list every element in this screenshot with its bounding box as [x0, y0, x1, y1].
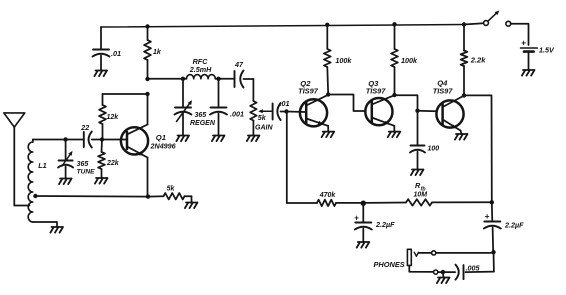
wire switch to battery	[511, 24, 529, 45]
resistor 5k	[148, 186, 192, 203]
transistor Q1 2N4996	[102, 94, 177, 197]
svg-text:365: 365	[77, 161, 89, 168]
wire junction to Q2 base	[287, 111, 306, 114]
node tune junction	[63, 137, 67, 141]
svg-text:2.5mH: 2.5mH	[189, 65, 212, 74]
svg-text:22k: 22k	[106, 160, 120, 167]
wire to RFC	[148, 78, 184, 80]
svg-text:TIS97: TIS97	[366, 86, 387, 95]
svg-text:100k: 100k	[401, 56, 418, 65]
variable capacitor 365 REGEN	[175, 79, 216, 136]
ground after 5k	[185, 203, 198, 209]
wire to .005	[443, 271, 455, 273]
node collector-12k junction	[145, 92, 149, 96]
ground below .001	[212, 136, 225, 142]
node RFC-.001 junction	[216, 77, 220, 81]
resistor 1k	[144, 27, 162, 80]
wire tune junction to 22 cap	[66, 139, 84, 141]
resistor 100k Q3	[391, 24, 418, 95]
wire rail to switch	[464, 23, 484, 24]
resistor 470k	[287, 192, 364, 206]
antenna	[4, 113, 25, 206]
transistor Q2 TIS97	[298, 79, 328, 132]
svg-text:.01: .01	[111, 49, 121, 58]
capacitor .001	[210, 79, 244, 136]
svg-text:REGEN: REGEN	[190, 120, 216, 127]
wire L1 bottom	[33, 222, 57, 227]
node emitter junction	[146, 194, 150, 198]
ground below 100	[411, 170, 424, 176]
ground below REGEN	[176, 136, 189, 142]
wire ground stem	[442, 272, 445, 277]
node Q4 collector	[462, 93, 466, 97]
capacitor 100	[410, 111, 439, 170]
ground below GAIN pot	[247, 136, 260, 142]
resistor 12k	[99, 94, 119, 140]
resistor 100k Q2	[324, 25, 352, 95]
resistor 22k	[98, 140, 120, 179]
wire L1 top to tune	[33, 139, 66, 141]
svg-text:12k: 12k	[107, 114, 120, 121]
ground below battery	[522, 70, 535, 76]
wire ground return	[35, 195, 148, 198]
capacitor .005	[456, 264, 494, 280]
capacitor 22	[80, 123, 102, 148]
switch S1	[484, 11, 511, 27]
capacitor .01 coupling	[273, 99, 290, 120]
wire .005 up to junction	[493, 252, 495, 271]
svg-text:TIS97: TIS97	[433, 86, 454, 95]
node phones top junction	[491, 250, 495, 254]
capacitor 47	[234, 60, 253, 88]
variable capacitor 365 TUNE	[58, 140, 95, 179]
node Q4 base junction	[415, 109, 419, 113]
wire RFC to 47 cap	[219, 78, 235, 80]
svg-text:47: 47	[234, 60, 244, 69]
transistor Q4 TIS97	[433, 78, 464, 134]
wire Q2 collector to Q3 base	[328, 95, 365, 112]
node rail-1k junction	[145, 24, 149, 28]
svg-text:1k: 1k	[153, 49, 162, 56]
resistor 2.2k	[461, 25, 487, 96]
node Q3 collector	[392, 93, 396, 97]
ground below .01 bypass	[94, 71, 107, 77]
phone jack J1	[374, 249, 434, 272]
node Q1 base junction	[100, 137, 104, 141]
svg-text:.001: .001	[230, 110, 244, 119]
svg-text:TIS97: TIS97	[298, 86, 319, 95]
node 470k junction	[361, 201, 366, 206]
battery 1.5V	[521, 38, 555, 71]
ground below 22k	[95, 178, 108, 184]
wire antenna tap	[14, 205, 29, 207]
node Q2 collector	[326, 92, 330, 96]
capacitor 2.2uF right	[484, 202, 524, 252]
wire phones top	[436, 252, 491, 254]
wire bottom contact	[438, 271, 443, 273]
node rail-100k junction B	[392, 22, 396, 26]
contact circle top	[432, 251, 436, 255]
inductor L1	[28, 140, 46, 223]
ground phones	[437, 278, 450, 284]
svg-text:470k: 470k	[319, 192, 337, 199]
node rail-100k junction A	[325, 23, 329, 27]
node 1k-RFC junction	[145, 77, 149, 81]
svg-text:+: +	[485, 212, 490, 221]
node phones ground junction	[441, 270, 445, 274]
node L1 tap	[33, 194, 37, 198]
svg-text:5k: 5k	[258, 115, 267, 122]
ground below 2.2uF left	[357, 242, 370, 248]
wire Q2 base junction down	[286, 112, 288, 204]
resistor Rfb 10M	[363, 181, 492, 206]
node rail-2.2k junction	[462, 22, 466, 26]
node Q2 base junction	[284, 109, 288, 113]
ground below TUNE	[59, 179, 72, 185]
svg-text:GAIN: GAIN	[255, 125, 273, 132]
svg-text:PHONES: PHONES	[374, 260, 405, 269]
node regen junction	[181, 77, 185, 81]
svg-text:5k: 5k	[167, 186, 176, 193]
svg-text:2N4996: 2N4996	[150, 142, 177, 151]
capacitor .01 bypass	[93, 27, 122, 71]
svg-text:+: +	[354, 214, 359, 223]
svg-text:1.5V: 1.5V	[539, 46, 555, 55]
wire 1k junction to 12k (left at y94)	[103, 93, 148, 95]
svg-text:365: 365	[195, 112, 207, 119]
svg-text:10M: 10M	[414, 192, 428, 199]
svg-text:2.2k: 2.2k	[470, 56, 487, 65]
svg-text:+: +	[521, 38, 526, 48]
svg-text:L1: L1	[38, 161, 46, 170]
svg-text:TUNE: TUNE	[77, 169, 96, 176]
ground Q2 emitter	[322, 132, 335, 138]
wire Q4 collector to output	[464, 95, 492, 202]
capacitor 2.2uF left	[354, 203, 395, 242]
transistor Q3 TIS97	[365, 79, 394, 132]
inductor RFC 2.5mH	[183, 57, 221, 79]
wire top supply rail	[101, 25, 464, 28]
svg-text:22: 22	[80, 123, 89, 132]
svg-text:.01: .01	[280, 99, 290, 108]
svg-text:100: 100	[428, 146, 440, 153]
node feedback junction	[490, 200, 494, 204]
ground below L1	[50, 227, 63, 233]
ground Q3 emitter	[388, 132, 401, 138]
svg-text:100k: 100k	[335, 56, 352, 65]
ground Q4 emitter	[455, 134, 468, 140]
wire 47 to gain pot	[252, 79, 254, 101]
svg-text:2.2µF: 2.2µF	[375, 220, 395, 229]
potentiometer 5k GAIN	[250, 101, 273, 136]
contact circle bottom	[434, 270, 438, 274]
wire Q3 collector to Q4 base	[395, 95, 437, 111]
svg-text:2.2µF: 2.2µF	[504, 221, 524, 230]
